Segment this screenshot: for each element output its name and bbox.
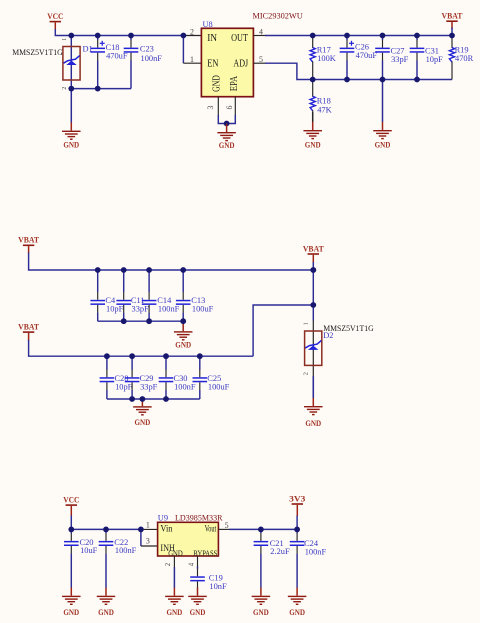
ground [304, 376, 323, 428]
capacitor C23 100nF [124, 36, 163, 89]
junction dots middle row2 bottom [129, 396, 135, 402]
svg-text:GND: GND [375, 141, 391, 150]
pin 4 OUT stub [253, 35, 266, 37]
resistor R17 100K [310, 36, 336, 80]
power port VCC [63, 495, 79, 516]
wire EN branch [182, 36, 184, 64]
wire ADJ to divider [265, 63, 452, 79]
zener diode symbol [305, 340, 321, 349]
wire VBAT stub down [451, 28, 453, 36]
svg-text:3V3: 3V3 [289, 494, 305, 503]
capacitor C30 100nF [159, 356, 196, 399]
pin 3 INH stub [141, 545, 158, 547]
svg-text:VBAT: VBAT [303, 244, 324, 253]
svg-text:VCC: VCC [47, 12, 63, 21]
wire D2 to GND [312, 376, 314, 398]
capacitor C25 100uF [193, 356, 230, 399]
svg-text:1: 1 [61, 38, 68, 41]
pin 5 Vout stub [218, 528, 230, 530]
wire VBAT row2 [29, 340, 254, 356]
svg-text:3: 3 [206, 105, 215, 109]
wire joining GND and EPA pins [218, 115, 235, 124]
diode D1 [61, 36, 80, 90]
svg-text:1: 1 [190, 55, 194, 64]
svg-text:470R: 470R [455, 54, 474, 63]
svg-text:10nF: 10nF [209, 582, 227, 591]
svg-text:U9: U9 [158, 513, 168, 522]
svg-text:GND: GND [63, 608, 79, 617]
ground [165, 567, 184, 617]
svg-text:10pF: 10pF [426, 55, 444, 64]
svg-text:U8: U8 [203, 20, 213, 29]
junction dot D2 mid [310, 302, 316, 308]
capacitor C27 33pF [375, 36, 408, 80]
svg-text:470uF: 470uF [356, 51, 378, 60]
capacitor C14 100nF [142, 270, 180, 321]
ground [133, 398, 152, 427]
capacitor C19 10nF [190, 567, 227, 591]
svg-text:33pF: 33pF [132, 305, 150, 314]
ground [62, 588, 81, 618]
svg-text:100nF: 100nF [305, 547, 327, 556]
power port 3V3 [289, 494, 305, 516]
power port VBAT [18, 322, 39, 340]
junction dot D2 top [310, 267, 316, 273]
ground [303, 112, 322, 150]
ground [252, 588, 271, 618]
power port VBAT [442, 12, 463, 30]
wire VBAT to D2 [312, 262, 314, 321]
svg-text:GND: GND [63, 141, 79, 150]
svg-text:GND: GND [168, 548, 183, 558]
svg-text:GND: GND [219, 141, 235, 150]
svg-text:EPA: EPA [229, 75, 240, 91]
svg-text:VBAT: VBAT [18, 322, 39, 331]
svg-text:4: 4 [189, 562, 196, 566]
junction dots second row right [310, 77, 316, 83]
svg-text:EN: EN [207, 59, 219, 70]
ground [217, 124, 236, 151]
svg-text:2: 2 [190, 28, 194, 37]
ground [373, 80, 392, 150]
svg-text:10uF: 10uF [80, 546, 98, 555]
svg-text:33pF: 33pF [391, 55, 409, 64]
capacitor C24 100nF [290, 529, 327, 587]
zener diode body outline [63, 47, 80, 81]
svg-text:C23: C23 [140, 45, 154, 54]
junction dots bottom right [258, 527, 264, 533]
capacitor C20 10uF [64, 529, 98, 587]
power port VBAT [303, 244, 324, 262]
svg-text:GND: GND [175, 341, 191, 350]
wire Vout to 3V3 [230, 528, 298, 530]
svg-text:GND: GND [305, 419, 321, 428]
wire VCC row [71, 516, 141, 530]
wire 3V3 stub [296, 516, 298, 530]
svg-text:10pF: 10pF [106, 305, 124, 314]
ground [97, 588, 116, 618]
svg-text:GND: GND [98, 608, 114, 617]
junction dots top wire left [68, 33, 74, 39]
svg-text:100nF: 100nF [174, 382, 196, 391]
wire bottom row1 middle [98, 320, 184, 322]
junction dots top wire right [310, 33, 316, 39]
junction dots middle row2 [104, 353, 110, 359]
U8 GND pin stub [217, 97, 219, 116]
resistor R19 470R [449, 36, 473, 80]
svg-text:1: 1 [303, 322, 310, 325]
svg-text:LD3985M33R: LD3985M33R [175, 513, 223, 522]
svg-text:2: 2 [61, 87, 68, 90]
pin 1 wire into U8 [183, 62, 201, 64]
svg-text:Vin: Vin [160, 524, 172, 535]
wire bottom row2 middle [107, 398, 200, 400]
svg-text:IN: IN [207, 33, 217, 44]
svg-text:GND: GND [305, 141, 321, 150]
capacitor C21 2.2uF [254, 529, 290, 587]
svg-text:47K: 47K [317, 105, 331, 114]
svg-text:100uF: 100uF [208, 382, 230, 391]
svg-text:OUT: OUT [231, 33, 248, 44]
svg-text:2: 2 [303, 372, 310, 375]
pin 1 Vin stub [141, 528, 158, 530]
wire VBAT row1 [29, 253, 314, 271]
junction dots bottom row left [68, 86, 74, 92]
capacitor C11 33pF [116, 270, 149, 321]
capacitor C31 10pF [410, 36, 443, 80]
junction dots middle row1 bottom [121, 318, 127, 324]
pin 2 GND stub [173, 556, 175, 568]
plus mark C26 [349, 42, 354, 44]
diode D2 [303, 322, 322, 375]
plus mark C18 [100, 42, 105, 44]
svg-text:33pF: 33pF [140, 382, 158, 391]
op-amp regulator U8 MIC29302WU body [201, 28, 253, 96]
svg-text:2: 2 [165, 562, 172, 566]
regulator U9 LD3985M33R body [158, 522, 219, 556]
svg-text:470uF: 470uF [106, 52, 128, 61]
power port VBAT [18, 236, 39, 254]
svg-text:VBAT: VBAT [18, 236, 39, 245]
power port VCC [47, 12, 63, 30]
svg-text:BYPASS: BYPASS [193, 548, 217, 558]
zener diode symbol [64, 56, 80, 65]
svg-text:100nF: 100nF [141, 54, 163, 63]
capacitor C4 10pF [90, 270, 123, 321]
svg-text:GND: GND [289, 608, 305, 617]
svg-text:VCC: VCC [63, 495, 79, 504]
svg-text:GND: GND [212, 75, 223, 92]
junction dots bottom left [68, 527, 74, 533]
svg-text:C26: C26 [355, 43, 369, 52]
svg-text:GND: GND [167, 608, 183, 617]
svg-text:MMSZ5V1T1G: MMSZ5V1T1G [12, 48, 63, 57]
capacitor C22 100nF [99, 529, 137, 587]
wire INH branch [140, 529, 142, 546]
svg-text:100K: 100K [317, 54, 336, 63]
ground [174, 321, 193, 349]
svg-text:C18: C18 [106, 43, 120, 52]
junction dots middle row1 [95, 267, 101, 273]
pin of D2 bottom [312, 350, 314, 377]
ground [62, 89, 81, 150]
ground [188, 588, 207, 618]
svg-text:100nF: 100nF [115, 546, 137, 555]
pin of D2 top [312, 321, 314, 347]
svg-text:ADJ: ADJ [233, 59, 248, 70]
svg-text:Vout: Vout [205, 524, 217, 535]
svg-text:2.2uF: 2.2uF [270, 547, 290, 556]
svg-text:D2: D2 [323, 331, 333, 340]
U8 EPA pin stub [234, 97, 236, 116]
capacitor C13 100uF [176, 270, 214, 321]
svg-text:VBAT: VBAT [442, 12, 463, 21]
svg-text:3: 3 [146, 537, 150, 546]
wire bottom row left [71, 88, 131, 90]
ground [288, 588, 307, 618]
wire VCC to U8 IN [55, 29, 183, 36]
pin 4 BYPASS stub [197, 556, 199, 568]
pin 5 ADJ stub [253, 62, 266, 64]
svg-text:10pF: 10pF [115, 382, 133, 391]
svg-text:6: 6 [225, 105, 234, 109]
svg-text:GND: GND [135, 418, 151, 427]
svg-text:1: 1 [146, 521, 150, 530]
wire link row2 to D2 [253, 305, 313, 356]
junction dot U8 ground [224, 121, 230, 127]
svg-text:GND: GND [253, 608, 269, 617]
capacitor C29 33pF [125, 356, 158, 399]
svg-text:GND: GND [190, 608, 206, 617]
zener diode body outline [305, 331, 322, 365]
resistor R18 47K [310, 80, 332, 115]
capacitor C26 470uF [340, 36, 378, 80]
capacitor C18 470uF [90, 36, 127, 89]
wire OUT to VBAT [265, 35, 452, 37]
svg-text:MIC29302WU: MIC29302WU [253, 12, 303, 21]
capacitor C28 10pF [100, 356, 133, 399]
pin 2 wire into U8 [183, 35, 201, 37]
svg-text:100nF: 100nF [158, 305, 180, 314]
svg-text:100uF: 100uF [192, 305, 214, 314]
